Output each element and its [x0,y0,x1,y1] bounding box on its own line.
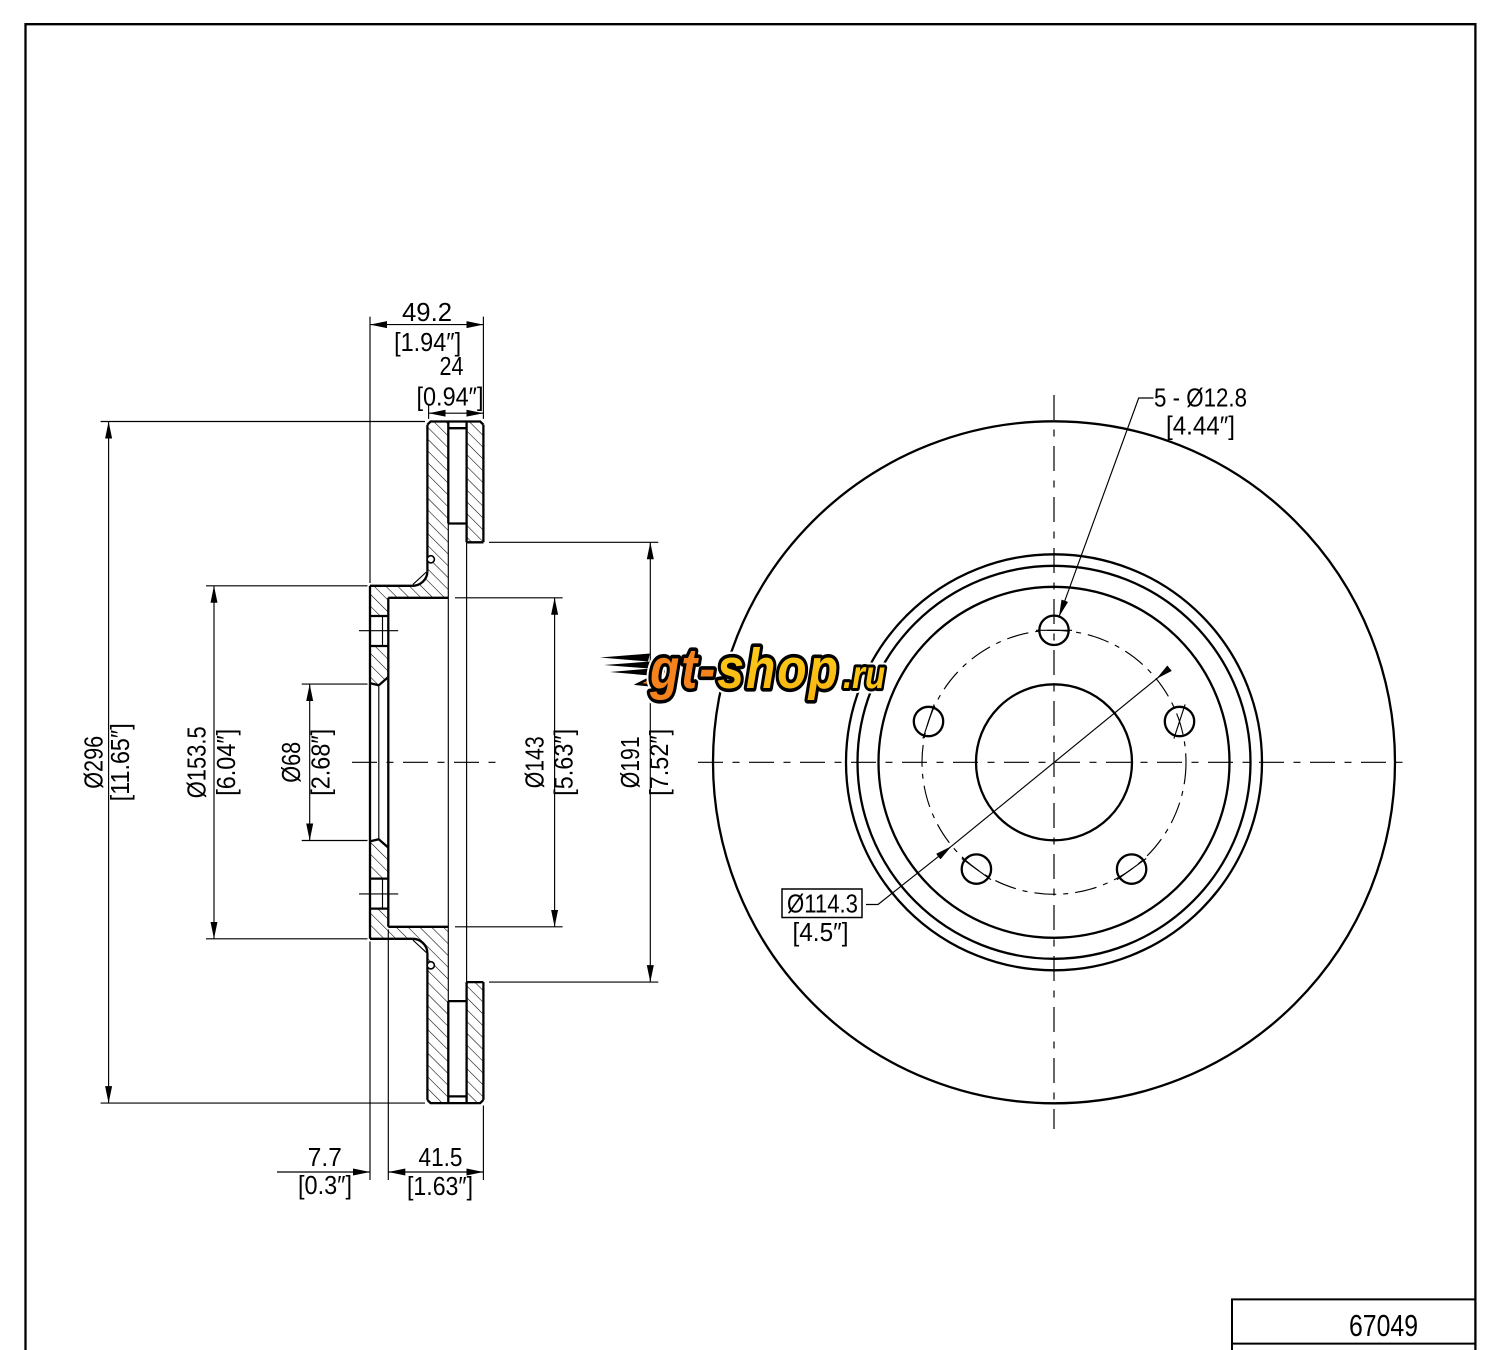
bolt circle O114.3 (dash-dot) [922,630,1186,894]
inboard plate inner face O191 (top half) [467,541,484,543]
svg-text:[11.65″]: [11.65″] [105,723,135,801]
dimension line O191 [649,542,651,982]
svg-text:Ø191: Ø191 [615,736,645,788]
bolt hole tick lower-right [1117,859,1146,880]
fillet plate-to-hat (bottom half) [412,939,427,954]
svg-text:5 - Ø12.8: 5 - Ø12.8 [1154,383,1247,413]
hatch fill: flange piece between bolt hole and bore (bottom half) [370,839,388,878]
hatch fill: flange piece between bolt hole and bore (top half) [370,646,388,685]
svg-text:Ø143: Ø143 [520,736,550,788]
O114.3 upper arrow [1156,668,1169,679]
speed spike 1 [600,654,650,662]
svg-text:[1.63″]: [1.63″] [407,1171,473,1201]
dimension line 41.5 [388,1171,483,1173]
vane root line (top half) [448,522,466,524]
extension lines O68 [302,684,368,840]
dimension line O68 [309,684,311,840]
svg-text:[0.3″]: [0.3″] [298,1170,352,1200]
inboard plate outer face (top half) [482,425,484,543]
bore entry chamfers (top half) [370,677,388,685]
bolt hole lower-left [962,854,991,883]
bore entry chamfers (bottom half) [370,839,388,847]
svg-text:[4.44″]: [4.44″] [1166,411,1235,441]
outboard plate outer face (bottom half) [426,954,428,1100]
dimension line 24 [429,412,484,414]
extension lines 49.2 and 24 [370,317,483,583]
bolt hole tick upper-right [1174,704,1185,738]
bolt hole tick upper-left [923,704,934,738]
logo text gt-shop.ru [649,639,885,701]
svg-text:67049: 67049 [1349,1308,1418,1343]
flange front face [369,586,371,939]
svg-text:.ru: .ru [843,653,885,697]
leader line 5-O12.8 with arrow to top bolt hole [1059,398,1154,617]
svg-text:[7.52″]: [7.52″] [644,729,674,796]
OD face top edge with corner chamfers [427,422,483,425]
dimension line O143 [554,598,556,927]
svg-text:Ø68: Ø68 [276,742,306,783]
hatch fill: inboard plate (top half) [467,422,484,543]
title block table [1232,1299,1475,1350]
vertical centerline [1053,395,1055,1129]
bolt circle tick marks in section [359,631,398,894]
dimension line O296 [108,422,110,1104]
inboard plate inner circle [858,566,1251,959]
speed spike 2 [604,662,650,669]
section axis centerline [352,761,505,763]
flange back face [387,598,389,927]
silhouette edge lines behind cut [448,524,466,1002]
inboard plate inner face O191 (bottom half) [467,981,484,983]
bolt hole upper-left [914,707,943,736]
vent channel walls (bottom half) [448,982,466,1103]
speed spike 3 [610,669,651,676]
svg-text:Ø153.5: Ø153.5 [182,726,212,798]
hat outer circle O153.5 [879,587,1230,938]
outboard plate outer face (top half) [426,425,428,571]
svg-text:gt-shop: gt-shop [649,639,840,701]
svg-text:[6.04″]: [6.04″] [211,729,241,796]
svg-text:Ø114.3: Ø114.3 [787,889,858,919]
center bore circle O68 [976,684,1132,840]
svg-text:[5.63″]: [5.63″] [549,729,579,796]
hatch fill: inboard plate (bottom half) [467,982,484,1103]
dimension line 49.2 [370,324,483,326]
bolt hole interior edge lines [382,616,384,909]
vent channel walls (top half) [448,422,466,543]
friction surface inner circle [846,554,1262,970]
bolt hole tick lower-left [962,859,991,880]
OD face bottom edge with corner chamfers [427,1100,483,1103]
undercut groove (top) [427,556,434,563]
O114.3 label box [782,889,862,918]
horizontal centerline [698,761,1412,763]
bolt hole edges in section (bottom half) [370,879,388,909]
extension lines 7.7 / 41.5 [370,930,483,1181]
extension lines O153.5 [206,586,368,939]
hat outer surface O153.5 (top half) [370,585,412,587]
hatch fill: outboard plate + hat + flange (top half) [370,422,448,617]
fillet plate-to-hat (top half) [412,571,427,586]
svg-text:[4.5″]: [4.5″] [793,917,849,947]
dimension line O153.5 [213,586,215,939]
hat outer surface O153.5 (bottom half) [370,938,412,940]
svg-text:[0.94″]: [0.94″] [417,382,484,412]
bore silhouette line [378,685,380,839]
bolt hole upper-right [1165,707,1194,736]
vane root line (bottom half) [448,1000,466,1002]
outer circle O296 [713,421,1395,1103]
vent channel outer rim (bottom half) [448,1095,466,1097]
bolt hole edges in section (top half) [370,616,388,646]
orange flame wedge [638,664,678,688]
O114.3 bolt circle diameter line [952,679,1157,846]
vent channel outer rim (top half) [448,427,466,429]
dimension line 7.7 [277,1171,370,1173]
fillet tangent chords [413,572,427,953]
svg-text:49.2: 49.2 [402,297,452,327]
extension lines O296 [101,422,425,1104]
bolt hole top [1039,616,1068,645]
bolt hole tick top [1036,629,1072,631]
undercut groove (bottom) [427,962,434,969]
svg-text:[2.68″]: [2.68″] [306,729,336,796]
hat inner surface O143 (bottom half) [388,926,448,928]
bolt hole lower-right [1117,854,1146,883]
extension lines O143 [455,598,563,927]
svg-text:7.7: 7.7 [308,1142,342,1172]
inboard plate outer face (bottom half) [482,982,484,1100]
O114.3 leader from box to bolt circle [866,846,952,904]
hatch fill: outboard plate + hat + flange (bottom half) [370,909,448,1104]
svg-text:24: 24 [440,351,464,381]
hat inner surface O143 (top half) [388,597,448,599]
svg-text:Ø296: Ø296 [79,736,109,789]
svg-text:41.5: 41.5 [419,1142,463,1172]
extension lines O191 [489,542,658,982]
